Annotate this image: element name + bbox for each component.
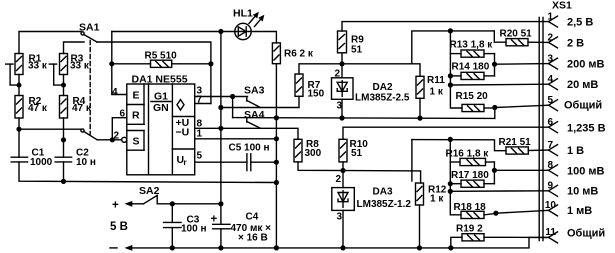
node C3 bottom xyxy=(170,245,175,250)
svg-text:200 мВ: 200 мВ xyxy=(567,59,605,71)
node ground vertical bottom xyxy=(274,245,279,250)
node 2.5V to divider xyxy=(448,28,453,33)
svg-text:× 16 В: × 16 В xyxy=(238,233,268,244)
resistor R20 xyxy=(494,29,548,46)
wire pin4 net / R5 left riser xyxy=(112,32,127,95)
resistor R16 xyxy=(446,149,495,166)
svg-text:10 н: 10 н xyxy=(76,157,96,168)
trimmer tap R3 xyxy=(49,64,66,88)
node pin8 tap xyxy=(492,168,497,173)
switch SA4 xyxy=(244,109,265,128)
switch SA1 gang dashed link xyxy=(89,41,91,135)
svg-text:R5 510: R5 510 xyxy=(145,51,178,62)
wire R13/R14 right junction xyxy=(494,54,496,76)
contact pin 8 xyxy=(547,160,604,178)
capacitor C2 xyxy=(55,148,96,169)
node pin3/SA3 branch xyxy=(230,94,235,99)
svg-text:XS1: XS1 xyxy=(552,0,572,12)
wire pin7 output xyxy=(195,103,211,105)
svg-text:5 В: 5 В xyxy=(110,221,128,233)
svg-text:2 В: 2 В xyxy=(567,38,584,50)
svg-text:150: 150 xyxy=(308,89,325,100)
node DA3 pin2 xyxy=(340,168,345,173)
resistor R5 xyxy=(112,51,211,68)
wire +5V to R7 bottom xyxy=(221,96,299,107)
wire output row to dividers xyxy=(233,117,495,120)
resistor R8 xyxy=(294,139,322,162)
svg-text:1 к: 1 к xyxy=(430,87,444,98)
svg-text:33 к: 33 к xyxy=(70,61,90,72)
svg-text:6: 6 xyxy=(120,109,126,120)
svg-text:R11: R11 xyxy=(427,75,445,86)
switch SA2 xyxy=(112,185,221,212)
svg-text:R17 180: R17 180 xyxy=(451,170,489,181)
node R9 bottom / DA2 xyxy=(339,61,344,66)
wire R3 stub to SA1 xyxy=(64,42,85,54)
node ground rail join xyxy=(274,180,279,185)
node +5V to R7 wire xyxy=(218,105,223,110)
svg-text:DA3: DA3 xyxy=(373,187,393,198)
wire R3 to R4 xyxy=(63,75,65,96)
svg-text:G1: G1 xyxy=(154,91,168,103)
svg-text:R19 2: R19 2 xyxy=(456,224,483,235)
svg-text:E: E xyxy=(133,90,140,102)
svg-text:R: R xyxy=(132,110,140,122)
wire pin6 riser xyxy=(112,118,127,140)
node R14 left xyxy=(448,73,453,78)
svg-text:1 В: 1 В xyxy=(567,145,584,157)
wire pin8 line xyxy=(494,169,548,171)
node R5 right xyxy=(208,61,213,66)
wire pin3 line xyxy=(495,63,549,66)
contact pin 11 xyxy=(545,227,605,243)
wire bottom rail xyxy=(110,237,549,250)
contact pin 2 xyxy=(547,33,584,50)
svg-text:R15 20: R15 20 xyxy=(456,91,489,102)
wire R6 down ground vertical xyxy=(275,64,277,248)
resistor R15 xyxy=(456,91,495,112)
svg-text:2,5 В: 2,5 В xyxy=(567,17,593,29)
node C3 top xyxy=(170,201,175,206)
contact pin 3 xyxy=(547,54,604,71)
svg-text:+: + xyxy=(112,200,119,212)
wire top rail left (+5V) xyxy=(19,32,276,54)
capacitor C5 xyxy=(195,143,277,171)
wire pin8 to R8 top xyxy=(195,128,298,139)
wire bottom-rail branch line to lower divider xyxy=(412,140,506,181)
svg-text:1,235 В: 1,235 В xyxy=(567,123,606,135)
resistor R19 xyxy=(451,224,549,248)
contact pin 5 xyxy=(547,95,602,112)
svg-text:47 к: 47 к xyxy=(72,103,92,114)
node junction top rail to +5V vertical xyxy=(218,29,223,34)
contact pin 7 xyxy=(547,140,584,157)
wire R7 top node row xyxy=(299,64,420,77)
node lower divider feed xyxy=(448,137,453,142)
node R19 bottom rail xyxy=(448,245,453,250)
node pin10 tap xyxy=(493,211,498,216)
node DA2 pin3 xyxy=(339,115,344,120)
node pin3 tap xyxy=(492,62,497,67)
wire C1 bottom to ground rail xyxy=(19,162,276,183)
resistor R3 xyxy=(60,54,90,75)
wire R10 bottom xyxy=(342,162,344,171)
resistor R7 xyxy=(295,74,325,100)
node R12 bottom rail xyxy=(417,245,422,250)
node pin4 tap xyxy=(448,82,453,87)
svg-text:R13 1,8 к: R13 1,8 к xyxy=(450,40,494,51)
resistor R6 xyxy=(272,43,314,64)
svg-text:LM385Z-1.2: LM385Z-1.2 xyxy=(357,199,412,210)
switch SA3 xyxy=(244,85,265,108)
svg-text:GN: GN xyxy=(153,102,169,114)
resistor R9 xyxy=(338,31,365,56)
wire C2 bottom xyxy=(63,162,65,182)
upper divider common vertical xyxy=(450,31,462,108)
node C4 top xyxy=(218,201,223,206)
svg-text:SA3: SA3 xyxy=(244,85,265,97)
wire R11 bottom xyxy=(419,98,421,118)
svg-text:100 мВ: 100 мВ xyxy=(567,166,605,178)
node +5V to pin8 xyxy=(218,126,223,131)
node R2/C1 xyxy=(16,127,21,132)
svg-text:20 мВ: 20 мВ xyxy=(567,79,598,91)
svg-text:HL1: HL1 xyxy=(233,8,253,20)
svg-text:300: 300 xyxy=(305,148,322,159)
svg-text:+: + xyxy=(211,214,218,226)
svg-text:1: 1 xyxy=(197,129,203,140)
wire pin5 line xyxy=(495,105,549,107)
wire R2 bottom / C1 node xyxy=(19,118,81,157)
svg-text:Общий: Общий xyxy=(567,228,605,240)
resistor R11 xyxy=(416,75,445,98)
resistor R12 xyxy=(416,183,447,205)
switch SA1 pole 1 xyxy=(81,32,97,42)
node C4 bottom xyxy=(218,245,223,250)
wire SA1 pole2 output to pin2 xyxy=(97,139,121,141)
node DA3 bottom xyxy=(340,245,345,250)
node pin9 tap xyxy=(448,189,453,194)
svg-text:S: S xyxy=(133,136,140,148)
wire SA1 pole1 output xyxy=(97,42,211,104)
contact pin 9 xyxy=(547,181,598,198)
resistor R10 xyxy=(339,139,368,162)
svg-text:C5 100 н: C5 100 н xyxy=(229,143,270,154)
node C2/ground rail xyxy=(61,179,66,184)
voltage ref DA2 xyxy=(332,64,410,118)
svg-text:C4: C4 xyxy=(246,212,259,223)
wire ground riser to pin5 xyxy=(494,108,496,119)
svg-text:4: 4 xyxy=(112,87,118,98)
node R4/C2/SA1 xyxy=(61,137,66,142)
resistor R17 xyxy=(450,170,494,187)
contact pin 10 xyxy=(545,200,592,217)
wire R8/R10 bottom node to R12 xyxy=(298,162,421,183)
wire R1 to R2 xyxy=(18,75,20,96)
svg-text:1 мВ: 1 мВ xyxy=(567,205,592,217)
wire pin1 to ground vertical xyxy=(195,138,277,140)
resistor R14 xyxy=(450,62,494,80)
lamp HL1 LED xyxy=(233,8,264,40)
node R11 bottom xyxy=(417,116,422,121)
svg-text:47 к: 47 к xyxy=(28,103,48,114)
wire R4/C2 junction xyxy=(63,118,65,157)
trimmer tap R1 xyxy=(6,64,22,88)
node pin2/pin6 riser xyxy=(110,137,115,142)
svg-text:100 н: 100 н xyxy=(181,224,207,235)
resistor R13 xyxy=(450,40,495,58)
node pin1/ground xyxy=(274,136,279,141)
resistor R2 xyxy=(15,96,48,119)
svg-text:r: r xyxy=(184,158,187,167)
wire pin4 line xyxy=(450,83,548,86)
capacitor C4 electrolytic xyxy=(211,204,272,248)
svg-text:DA2: DA2 xyxy=(373,82,393,93)
svg-text:R20 51: R20 51 xyxy=(500,29,533,40)
node R5 left xyxy=(109,61,114,66)
svg-text:51: 51 xyxy=(351,148,363,159)
node C5 right xyxy=(274,160,279,165)
svg-text:51: 51 xyxy=(351,45,363,56)
svg-text:33 к: 33 к xyxy=(28,61,48,72)
svg-text:−U: −U xyxy=(176,127,190,139)
resistor R4 xyxy=(60,96,92,119)
wire pin10 line xyxy=(496,210,549,213)
contact pin 1 xyxy=(547,12,593,29)
contact pin 4 xyxy=(547,74,598,91)
svg-text:3: 3 xyxy=(337,212,343,223)
wire R10 top to XS1 pin6 line xyxy=(343,127,549,139)
op-amp timer U1 DA1 NE555 box xyxy=(127,74,195,175)
resistor R21 xyxy=(499,137,549,154)
svg-text:Общий: Общий xyxy=(564,100,602,112)
wire R12 bottom xyxy=(419,205,421,248)
svg-text:2: 2 xyxy=(336,174,342,185)
wire pin9 line xyxy=(450,190,548,193)
capacitor C1 xyxy=(11,148,52,169)
node pin5 tap xyxy=(492,105,497,110)
wire R9 top to XS1 pin1 xyxy=(342,22,549,31)
wire pin3 output xyxy=(195,96,248,98)
svg-text:R14 180: R14 180 xyxy=(452,62,490,73)
svg-text:1000: 1000 xyxy=(30,157,53,168)
svg-text:10 мВ: 10 мВ xyxy=(567,186,598,198)
svg-text:LM385Z-2.5: LM385Z-2.5 xyxy=(355,93,410,104)
wire R16/R17 right junction xyxy=(493,162,495,184)
capacitor C3 xyxy=(164,204,207,248)
lower divider common vertical xyxy=(450,139,461,214)
switch SA1 pole 2 xyxy=(81,129,97,140)
connector XS1 xyxy=(539,0,572,241)
wire R9 bottom xyxy=(341,53,343,64)
svg-text:R6 2 к: R6 2 к xyxy=(284,49,314,60)
pin 2 inversion bubble xyxy=(122,137,127,142)
resistor R18 xyxy=(454,202,496,219)
wire 2.5V reference line xyxy=(412,31,495,64)
contact pin 6 xyxy=(547,117,605,135)
svg-text:1 к: 1 к xyxy=(430,194,444,205)
svg-text:5: 5 xyxy=(197,151,203,162)
node LED return xyxy=(274,115,279,120)
resistor R1 xyxy=(15,54,48,75)
node R17 left xyxy=(448,181,453,186)
wire +5V vertical xyxy=(220,32,222,204)
wire pin3 down to SA4 xyxy=(232,97,234,118)
voltage ref DA3 xyxy=(332,171,412,248)
svg-text:2: 2 xyxy=(114,131,120,142)
